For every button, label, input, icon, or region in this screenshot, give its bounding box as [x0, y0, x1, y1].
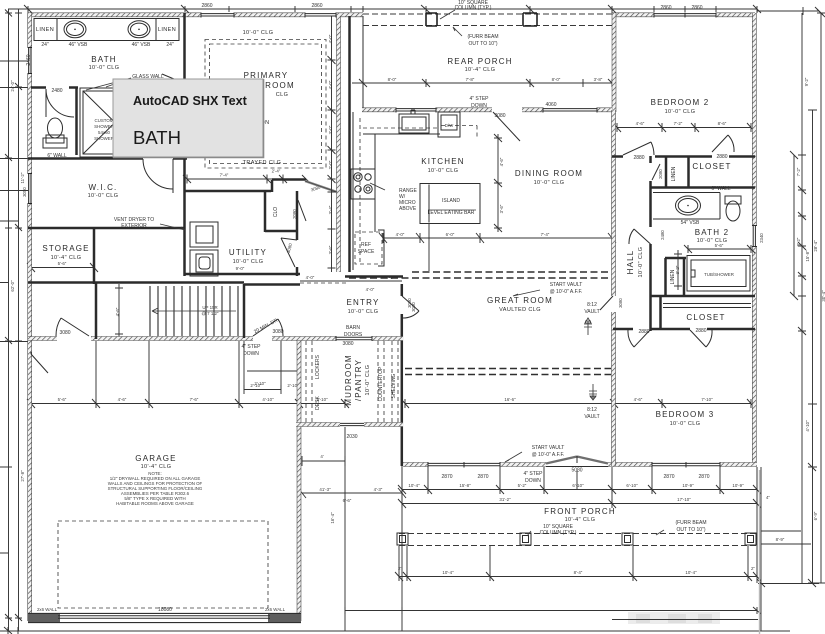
wall clo divider [265, 192, 297, 232]
range [351, 169, 375, 199]
grey fold line [759, 470, 761, 634]
svg-text:REF: REF [361, 242, 371, 248]
svg-text:3080: 3080 [342, 341, 353, 347]
svg-text:4': 4' [320, 454, 323, 459]
exterior wall bedroom2 west [612, 13, 617, 112]
window bath left wall 2460 [28, 48, 32, 74]
svg-text:VAULTED CLG: VAULTED CLG [499, 307, 541, 313]
svg-text:7'-4": 7'-4" [541, 232, 550, 237]
bath1 linen left [56, 19, 58, 41]
dim bottom ticks [4, 607, 761, 634]
extension lines porch slab to bottom dim [399, 546, 748, 577]
dim right ticks [790, 9, 825, 587]
wall toilet room bath1 [31, 87, 78, 155]
svg-text:4" STEP: 4" STEP [241, 344, 261, 350]
svg-text:2x6 WALL: 2x6 WALL [37, 607, 58, 612]
garage small dims [244, 385, 281, 394]
svg-text:REAR PORCH: REAR PORCH [447, 57, 512, 66]
svg-text:3080: 3080 [59, 330, 70, 336]
svg-text:8'-0": 8'-0" [552, 77, 561, 82]
svg-text:10'-0" CLG: 10'-0" CLG [365, 365, 371, 396]
svg-text:10'-0" CLG: 10'-0" CLG [348, 309, 379, 315]
svg-text:LINEN: LINEN [158, 27, 176, 33]
svg-text:4'-0": 4'-0" [366, 287, 375, 292]
wall garage east / mudroom west [297, 339, 302, 621]
svg-text:4" STEP: 4" STEP [469, 96, 489, 102]
svg-text:CLOSET: CLOSET [692, 162, 731, 171]
svg-text:SHOWER: SHOWER [94, 136, 114, 141]
svg-text:CLO: CLO [273, 207, 279, 217]
svg-text:8'-6": 8'-6" [718, 121, 727, 126]
svg-text:24": 24" [166, 42, 174, 48]
glass wall leaders [86, 78, 131, 90]
svg-text:28'-4": 28'-4" [813, 240, 818, 252]
svg-text:3'-6": 3'-6" [328, 245, 333, 254]
tooltip AutoCAD SHX Text popup [113, 79, 264, 158]
garage door dashed outline [58, 521, 268, 608]
svg-text:2340: 2340 [759, 233, 764, 243]
svg-text:START VAULT: START VAULT [550, 282, 583, 288]
svg-text:10'-0" CLG: 10'-0" CLG [670, 421, 701, 427]
svg-text:4'-0": 4'-0" [328, 80, 333, 89]
dims primary south row [183, 175, 310, 184]
front porch column B [520, 533, 531, 545]
svg-text:3'-4": 3'-4" [328, 205, 333, 214]
svg-text:VAULT: VAULT [584, 309, 599, 315]
watermark [628, 612, 720, 624]
exterior rear wall kitchen/dining [362, 108, 612, 113]
svg-text:EXTERIOR: EXTERIOR [121, 223, 147, 229]
bath1 sink right [128, 21, 150, 38]
svg-text:30'-4": 30'-4" [821, 290, 825, 302]
svg-text:2860: 2860 [660, 5, 671, 11]
svg-text:DOWN: DOWN [471, 103, 487, 109]
door closet top 2880 [712, 135, 734, 152]
svg-text:8'-9": 8'-9" [776, 537, 785, 542]
svg-text:10'-0" CLG: 10'-0" CLG [665, 109, 696, 115]
svg-text:6'-0": 6'-0" [446, 232, 455, 237]
svg-text:BATH 2: BATH 2 [695, 228, 730, 237]
exterior wall bedroom2 wing top [612, 13, 755, 18]
kitchen counter dashed inner [360, 118, 438, 265]
svg-text:10'-0" CLG: 10'-0" CLG [638, 247, 644, 278]
svg-text:9'-0": 9'-0" [236, 266, 245, 271]
window primary top left 2860 [201, 13, 234, 18]
svg-text:16'-4": 16'-4" [330, 512, 335, 524]
svg-text:2'-4": 2'-4" [272, 169, 281, 174]
garage dim line [27, 399, 349, 408]
svg-text:DOWN: DOWN [243, 351, 259, 357]
wall storage south / stair landing [28, 281, 244, 284]
dim verticals bottom area [345, 427, 761, 631]
primary tray ceiling dashed [205, 40, 326, 169]
svg-text:17'-10": 17'-10" [677, 497, 691, 502]
svg-text:62'-0": 62'-0" [10, 280, 15, 292]
svg-text:2880: 2880 [695, 328, 706, 334]
svg-text:BEDROOM 2: BEDROOM 2 [651, 98, 710, 107]
exterior wall top left (bath + primary) [28, 13, 363, 18]
kitchen island dim line [379, 233, 484, 243]
dishwasher [438, 112, 460, 137]
extension lines front wall to dims [402, 467, 757, 504]
svg-text:54x60: 54x60 [98, 130, 111, 135]
wall mudroom south [296, 422, 403, 427]
svg-text:8'-2": 8'-2" [796, 237, 801, 246]
svg-text:2'-10": 2'-10" [254, 381, 266, 386]
svg-text:BATH: BATH [133, 127, 181, 148]
svg-text:W.I.C.: W.I.C. [89, 183, 118, 192]
barn doors mudroom [336, 336, 372, 341]
stairs rail [243, 284, 246, 338]
stairs left dim [115, 284, 123, 338]
dim left vertical lines [9, 9, 19, 631]
svg-text:4'-6": 4'-6" [118, 397, 127, 402]
svg-text:15'-8": 15'-8" [459, 483, 471, 488]
svg-text:10'-9": 10'-9" [682, 483, 694, 488]
svg-text:10'-4" CLG: 10'-4" CLG [565, 517, 596, 523]
svg-text:3'-8": 3'-8" [594, 77, 603, 82]
svg-text:BEDROOM 3: BEDROOM 3 [656, 410, 715, 419]
great room vault break dashed lower [405, 369, 611, 375]
svg-text:BATH: BATH [91, 55, 117, 64]
svg-text:2860: 2860 [311, 3, 322, 9]
storage dim [27, 263, 98, 272]
svg-text:9'-2": 9'-2" [804, 77, 809, 86]
svg-text:7'-4": 7'-4" [220, 173, 229, 178]
entry top dims [300, 280, 402, 282]
svg-text:DOORS: DOORS [344, 332, 363, 338]
rear porch dim line [352, 79, 616, 87]
svg-text:10'-9": 10'-9" [732, 483, 744, 488]
wall closet2 south / bedroom3 north [613, 328, 755, 331]
svg-text:10'-0" CLG: 10'-0" CLG [534, 180, 565, 186]
svg-text:10'-4": 10'-4" [408, 483, 420, 488]
washer dryer utility [190, 222, 218, 247]
svg-text:2880: 2880 [638, 329, 649, 335]
svg-text:5'-6": 5'-6" [58, 397, 67, 402]
svg-text:CLG: CLG [276, 92, 289, 98]
svg-text:D/W: D/W [445, 123, 454, 128]
wall linen/closet divider [666, 156, 689, 188]
fixtures [34, 19, 741, 277]
svg-text:10'-0" CLG: 10'-0" CLG [428, 168, 459, 174]
svg-text:10'-0" CLG: 10'-0" CLG [88, 193, 119, 199]
kitchen sink [399, 114, 429, 133]
door bedroom2 2880 [623, 142, 654, 155]
svg-text:4'-0": 4'-0" [396, 232, 405, 237]
dim right vertical lines [794, 13, 821, 583]
svg-text:3080: 3080 [272, 329, 283, 335]
wall bedroom2 south [612, 155, 755, 158]
svg-text:7'-8": 7'-8" [466, 77, 475, 82]
window bath2 right 2340 [752, 226, 757, 247]
right lower dims [757, 467, 819, 587]
wall closet row east [296, 191, 299, 276]
svg-text:2'-0": 2'-0" [328, 160, 333, 169]
svg-text:41'-3": 41'-3" [319, 487, 331, 492]
svg-text:4'-6": 4'-6" [634, 397, 643, 402]
door garage man-door 3080 [56, 318, 89, 336]
svg-text:10'-4": 10'-4" [442, 570, 454, 575]
svg-text:46" VSB: 46" VSB [69, 42, 88, 48]
svg-text:7'-2": 7'-2" [796, 167, 801, 176]
bedroom2 dim line [613, 123, 755, 132]
svg-text:3'-2": 3'-2" [675, 265, 680, 274]
door wic [143, 159, 173, 193]
svg-text:5'-6": 5'-6" [58, 261, 67, 266]
svg-text:TUB/SHOWER: TUB/SHOWER [704, 272, 734, 277]
bath1 vanity counter [34, 19, 179, 41]
dining dim [480, 233, 616, 243]
front wall dim line 1 [398, 485, 761, 494]
exterior front wall great room + bedroom3 [401, 462, 757, 467]
door utility 3080 [281, 238, 297, 267]
wall bath2 south / closet2 north [650, 295, 755, 298]
great room vault break dashed lines [349, 272, 611, 278]
svg-text:START VAULT: START VAULT [532, 445, 565, 451]
svg-text:FRONT PORCH: FRONT PORCH [544, 507, 616, 516]
svg-text:3'-0": 3'-0" [328, 125, 333, 134]
svg-text:2880: 2880 [716, 154, 727, 160]
svg-text:2460: 2460 [26, 54, 32, 65]
vault arrow lower [589, 384, 597, 400]
wall utility south [184, 273, 300, 276]
svg-text:31'-2": 31'-2" [499, 497, 511, 502]
svg-text:(FURR BEAM: (FURR BEAM [467, 34, 498, 40]
svg-text:TRAYED CLG: TRAYED CLG [243, 160, 282, 166]
front entry double door 5080 [546, 457, 608, 464]
porch edge left [362, 16, 364, 108]
svg-text:2860: 2860 [201, 3, 212, 9]
svg-text:HABITABLE ROOMS ABOVE GARAGE: HABITABLE ROOMS ABOVE GARAGE [116, 501, 194, 506]
dim bath2 [684, 245, 755, 253]
svg-text:STORAGE: STORAGE [42, 244, 89, 253]
wall utility west lower [183, 228, 186, 276]
svg-text:8:12: 8:12 [587, 302, 597, 308]
bath1 linen right [155, 19, 157, 41]
dim line corridor [328, 16, 336, 272]
svg-text:ISLAND: ISLAND [442, 198, 460, 204]
windows great room front 2870 pair [428, 462, 500, 468]
svg-text:10'-0" CLG: 10'-0" CLG [233, 259, 264, 265]
svg-text:16'-6": 16'-6" [504, 397, 516, 402]
rear porch beam dashed [363, 14, 612, 26]
svg-text:2870: 2870 [698, 474, 709, 480]
svg-text:ABOVE: ABOVE [399, 206, 417, 212]
window mudroom south 2030 [340, 423, 364, 425]
shower walls bath1 [80, 88, 150, 157]
pocket door primary 3080 [305, 181, 337, 192]
svg-text:10'-4": 10'-4" [685, 570, 697, 575]
wall dining/hall east [611, 110, 616, 466]
mudroom lockers dashed [306, 341, 312, 422]
wall closet2 west [659, 296, 662, 329]
kitchen dim vertical [494, 134, 502, 232]
svg-text:GREAT ROOM: GREAT ROOM [487, 296, 553, 305]
svg-text:SHELVING: SHELVING [391, 373, 397, 398]
svg-text:2870: 2870 [663, 474, 674, 480]
exterior wall right [752, 13, 757, 466]
cabinet dashed by dishwasher [441, 126, 477, 138]
exterior wall left [27, 13, 32, 621]
door bedroom3 2880 [628, 330, 650, 347]
svg-text:UTILITY: UTILITY [229, 248, 267, 257]
door garage side exterior [31, 352, 48, 373]
door 20min garage entry [253, 319, 283, 336]
svg-text:4" STEP: 4" STEP [523, 471, 543, 477]
wall bath south / wic north [28, 157, 187, 160]
svg-text:6'-6": 6'-6" [343, 498, 352, 503]
svg-text:DOWN: DOWN [525, 478, 541, 484]
svg-text:2480: 2480 [51, 88, 62, 94]
svg-text:10'-4" CLG: 10'-4" CLG [141, 464, 172, 470]
wall storage east [93, 228, 96, 284]
svg-text:7'-10": 7'-10" [701, 397, 713, 402]
cased opening dashed header [300, 282, 346, 284]
wall bath east (primary west) [183, 13, 186, 228]
door primary (partially hidden by tooltip) [162, 74, 186, 84]
svg-text:24'-0": 24'-0" [10, 80, 15, 92]
svg-text:4'-10": 4'-10" [262, 397, 274, 402]
range leader [370, 183, 385, 190]
bath2 toilet [726, 201, 740, 221]
svg-text:2080: 2080 [658, 169, 663, 179]
svg-text:OUT TO 10"): OUT TO 10") [468, 41, 497, 47]
svg-text:/PANTRY: /PANTRY [354, 359, 363, 401]
dim bottom line porch [345, 611, 758, 620]
garage door sill [58, 616, 270, 619]
window wic left wall 3050 [28, 174, 32, 204]
svg-text:@ 7 1/2": @ 7 1/2" [201, 311, 218, 316]
front wall dim line 2 [398, 499, 761, 508]
door closet2 2880 [690, 330, 712, 347]
dim top right corner [757, 7, 823, 15]
tub enclosure [687, 256, 750, 292]
wall west of great room / mudroom east [401, 284, 404, 466]
svg-text:2860: 2860 [691, 5, 702, 11]
svg-text:HALL: HALL [626, 250, 635, 275]
wall hall east [649, 156, 652, 331]
svg-text:BARN: BARN [346, 325, 360, 331]
refrigerator dashed [355, 232, 382, 264]
svg-text:2": 2" [398, 566, 402, 571]
svg-text:2880: 2880 [633, 155, 644, 161]
svg-text:10'-0" CLG: 10'-0" CLG [243, 30, 274, 36]
svg-text:@ 10'-0" A.F.F.: @ 10'-0" A.F.F. [532, 452, 565, 458]
island [420, 184, 480, 224]
front porch column D [745, 533, 756, 545]
svg-text:COLUMN (TYP.): COLUMN (TYP.) [540, 530, 577, 536]
svg-text:8:12: 8:12 [587, 407, 597, 413]
wall stairs west [95, 282, 98, 339]
svg-text:KITCHEN: KITCHEN [421, 157, 465, 166]
window bedroom2 top 2860 pair [654, 13, 716, 18]
door bath2 2480 [629, 229, 651, 244]
svg-text:2": 2" [751, 566, 755, 571]
door hall south 3080 [600, 296, 613, 310]
rear porch column 2 [523, 13, 537, 26]
svg-text:2870: 2870 [441, 474, 452, 480]
svg-text:6" WALL: 6" WALL [47, 153, 67, 159]
svg-text:4": 4" [766, 495, 770, 500]
svg-text:4'-6": 4'-6" [115, 307, 120, 316]
svg-text:LINEN: LINEN [671, 166, 677, 181]
svg-text:SPACE: SPACE [358, 249, 375, 255]
svg-text:24": 24" [41, 42, 49, 48]
garage interior dim verticals [96, 341, 281, 404]
front porch slab dashed [399, 534, 757, 546]
svg-text:8'-4": 8'-4" [574, 570, 583, 575]
bath2 sink [676, 196, 701, 215]
wall entry north [244, 277, 403, 285]
wall linen2/tub [665, 258, 686, 296]
svg-text:3'-6": 3'-6" [499, 204, 504, 213]
mudroom countertop dashed [378, 341, 398, 422]
svg-text:COLUMN (TYP.): COLUMN (TYP.) [455, 5, 492, 11]
svg-text:AutoCAD SHX Text: AutoCAD SHX Text [133, 94, 248, 108]
door entry to great room 3080 [402, 296, 419, 318]
svg-text:CUSTOM: CUSTOM [95, 118, 114, 123]
svg-text:7'-6": 7'-6" [190, 397, 199, 402]
rear porch column 1 [426, 13, 437, 26]
svg-text:OUT TO 10"): OUT TO 10") [676, 527, 705, 533]
dim bottom long line [0, 630, 790, 632]
svg-text:3080: 3080 [407, 298, 412, 308]
svg-text:GARAGE: GARAGE [135, 454, 176, 463]
svg-text:11'-2": 11'-2" [20, 172, 25, 183]
door toilet room 2480 [46, 89, 74, 117]
svg-text:4'-10": 4'-10" [805, 420, 810, 432]
svg-text:3050: 3050 [22, 187, 27, 197]
door rear porch 3080 swing [493, 112, 520, 141]
mudroom hall dims small [247, 370, 299, 372]
svg-text:5'-6": 5'-6" [715, 243, 724, 248]
svg-text:CLOSET: CLOSET [686, 313, 725, 322]
svg-text:5080: 5080 [571, 468, 582, 474]
left extension lines [0, 61, 28, 553]
svg-text:@ 10'-0" A.F.F.: @ 10'-0" A.F.F. [550, 289, 583, 295]
svg-text:LEVEL EATING BAR: LEVEL EATING BAR [428, 210, 475, 216]
svg-text:SHOWER: SHOWER [94, 124, 114, 129]
wall closet south 6ft [650, 186, 755, 189]
wall primary south stepped [184, 180, 306, 193]
bath2 vanity [653, 193, 720, 220]
svg-text:ROOM: ROOM [265, 81, 295, 90]
svg-text:VAULT: VAULT [584, 414, 599, 420]
mudroom side dims [302, 456, 345, 466]
svg-text:ENTRY: ENTRY [347, 298, 380, 307]
svg-text:DINING ROOM: DINING ROOM [515, 169, 583, 178]
svg-text:10'-0" CLG: 10'-0" CLG [89, 65, 120, 71]
bath1 sink left [64, 21, 86, 38]
svg-text:4060: 4060 [545, 102, 556, 108]
bath1 toilet vanity [43, 138, 67, 148]
svg-text:MUDROOM: MUDROOM [344, 354, 353, 406]
closet2 shelf lines [663, 304, 751, 308]
wall primary east / kitchen west [336, 16, 341, 272]
wall garage north / stairs south [28, 336, 403, 341]
svg-text:15'-8": 15'-8" [805, 250, 810, 262]
svg-text:(FURR BEAM: (FURR BEAM [675, 520, 706, 526]
svg-text:54" VSB: 54" VSB [681, 220, 700, 226]
dim left ticks [5, 10, 22, 622]
svg-text:27'-8": 27'-8" [20, 470, 25, 482]
window kitchen sink rear [396, 108, 436, 113]
great room dim line [401, 399, 755, 408]
svg-text:4'-6": 4'-6" [499, 157, 504, 166]
svg-text:UP 15R: UP 15R [202, 305, 217, 310]
svg-text:7'-2": 7'-2" [674, 121, 683, 126]
